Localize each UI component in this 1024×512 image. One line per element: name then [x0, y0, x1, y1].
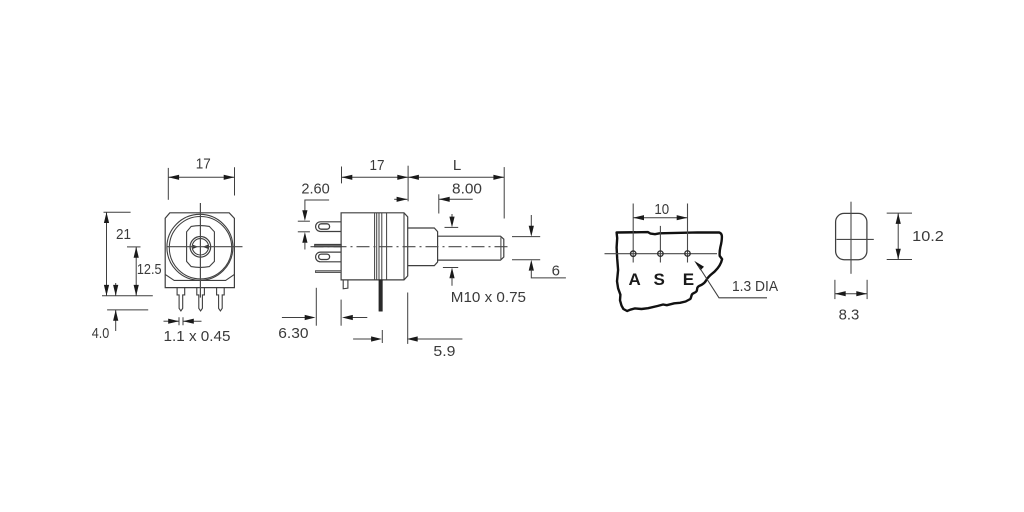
svg-text:6.30: 6.30 [278, 325, 308, 342]
side view bottom lug edge-on [316, 271, 342, 273]
svg-text:L: L [453, 157, 461, 174]
svg-text:6: 6 [552, 262, 560, 279]
dimension 17 (front view width) [168, 156, 234, 200]
dimension 21 (front view height) [104, 212, 132, 296]
dimension 2.60 (lug thickness) [298, 181, 330, 250]
svg-text:5.9: 5.9 [433, 343, 455, 360]
shaft end horizontal centerline [837, 238, 874, 240]
side view main centerline (dash-dot) [311, 246, 508, 248]
svg-text:M10 x 0.75: M10 x 0.75 [451, 289, 526, 306]
bottom reference extension line [102, 295, 153, 297]
front view vertical centerline [199, 203, 201, 298]
svg-text:21: 21 [116, 226, 131, 243]
terminal label E [683, 270, 694, 289]
front view outer circle (rotor) [167, 214, 233, 280]
dimension 4.0 (pin length) [92, 283, 148, 342]
front view bore tick marks [193, 245, 208, 249]
dimension 1.1 x 0.45 (pin cross section) [164, 317, 231, 345]
side view locating tab (dark) [379, 280, 383, 311]
front view pin 1 [177, 288, 185, 311]
svg-text:10: 10 [654, 201, 669, 218]
svg-text:A: A [628, 270, 640, 289]
front view horizontal centerline [167, 246, 243, 248]
svg-text:2.60: 2.60 [301, 181, 329, 198]
svg-text:12.5: 12.5 [137, 261, 162, 278]
side view middle lug edge-on [315, 244, 341, 246]
side view left mounting tab [343, 280, 348, 289]
side view body outline [341, 213, 408, 280]
front view pin 3 [217, 288, 225, 311]
hole E centerline [687, 204, 689, 263]
svg-text:10.2: 10.2 [912, 228, 944, 245]
side view upper solder lug [316, 222, 342, 232]
dimension 12.5 (center height) [127, 247, 162, 296]
dimension L (shaft length) [408, 157, 504, 218]
side view threaded bushing [408, 228, 438, 266]
svg-text:S: S [654, 270, 665, 289]
footprint horizontal centerline [605, 253, 718, 255]
leader 1.3 DIA [694, 261, 778, 298]
terminal label S [654, 270, 665, 289]
dimension 5.9 (tab offset) [353, 293, 462, 361]
svg-text:E: E [683, 270, 694, 289]
front view bushing hex (octagon) [187, 226, 215, 268]
front view body outline [165, 213, 234, 288]
hole E [685, 251, 690, 256]
svg-text:1.1 x 0.45: 1.1 x 0.45 [164, 328, 231, 345]
dimension M10 x 0.75 (bushing thread) [443, 214, 526, 306]
dimension 10.2 (section height) [887, 213, 944, 259]
dimension 8.3 (section width) [835, 280, 867, 324]
shaft end cross-section [836, 213, 867, 259]
pcb footprint torn-edge outline [617, 232, 723, 311]
front view pin 2 [197, 288, 205, 311]
hole S [658, 251, 663, 256]
svg-text:17: 17 [196, 156, 211, 173]
dimension 6.30 (lug reach) [278, 288, 367, 342]
hole A centerline [632, 204, 634, 263]
side view body chamfer edge line [403, 213, 405, 280]
dimension 8.00 (bushing length) [394, 181, 482, 214]
svg-text:1.3 DIA: 1.3 DIA [732, 278, 778, 295]
front view face plate bevel line [165, 275, 234, 281]
terminal label A [628, 270, 640, 289]
side view lower solder lug [316, 252, 342, 262]
svg-text:17: 17 [370, 157, 385, 174]
svg-text:4.0: 4.0 [92, 325, 110, 342]
side view shaft [438, 236, 504, 260]
shaft end vertical centerline [850, 202, 852, 274]
dimension 10 (hole spacing) [633, 201, 687, 220]
svg-text:8.00: 8.00 [452, 181, 482, 198]
dimension 17 (side view body) [342, 157, 409, 183]
side view body rib lines [375, 213, 387, 280]
hole S centerline [659, 226, 661, 263]
front view shaft bore circles [190, 237, 211, 258]
svg-text:8.3: 8.3 [839, 307, 860, 324]
hole A [631, 251, 636, 256]
dimension 6 (shaft diameter) [512, 215, 566, 279]
